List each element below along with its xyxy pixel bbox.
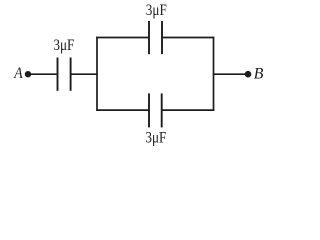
wire left vertical of parallel box <box>96 37 98 111</box>
svg-text:3μF: 3μF <box>146 2 167 19</box>
wire bottom branch left <box>96 109 149 111</box>
svg-text:A: A <box>13 65 22 82</box>
node B terminal dot <box>245 71 252 78</box>
capacitor C3 3uF left plate <box>148 93 150 127</box>
wire right vertical of parallel box <box>213 37 215 111</box>
capacitor C1 3uF right plate <box>70 58 72 91</box>
wire bottom branch right <box>162 109 214 111</box>
capacitor C1 3uF left plate <box>57 58 59 91</box>
wire C1 to node <box>72 73 98 75</box>
wire node to B <box>214 73 249 75</box>
svg-text:B: B <box>254 65 264 82</box>
wire top branch left <box>96 37 149 39</box>
svg-text:3μF: 3μF <box>53 37 74 54</box>
wire top branch right <box>162 37 214 39</box>
capacitor C2 3uF left plate <box>148 21 150 54</box>
svg-text:3μF: 3μF <box>145 129 166 146</box>
wire A to C1 <box>28 73 57 75</box>
capacitor C3 3uF right plate <box>161 93 163 127</box>
node A terminal dot <box>25 71 31 77</box>
capacitor C2 3uF right plate <box>161 21 163 54</box>
